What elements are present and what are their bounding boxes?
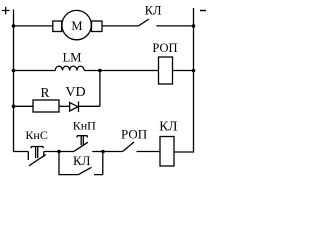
svg-text:КЛ: КЛ xyxy=(73,153,91,168)
svg-text:VD: VD xyxy=(65,85,85,100)
svg-text:КЛ: КЛ xyxy=(159,118,177,133)
svg-text:РОП: РОП xyxy=(152,41,177,55)
svg-text:R: R xyxy=(41,85,50,100)
svg-text:КнС: КнС xyxy=(25,128,47,142)
svg-text:РОП: РОП xyxy=(121,127,147,142)
svg-text:LM: LM xyxy=(63,51,82,65)
svg-text:КЛ: КЛ xyxy=(145,3,162,17)
svg-text:M: M xyxy=(71,19,82,33)
svg-text:КнП: КнП xyxy=(73,118,96,132)
